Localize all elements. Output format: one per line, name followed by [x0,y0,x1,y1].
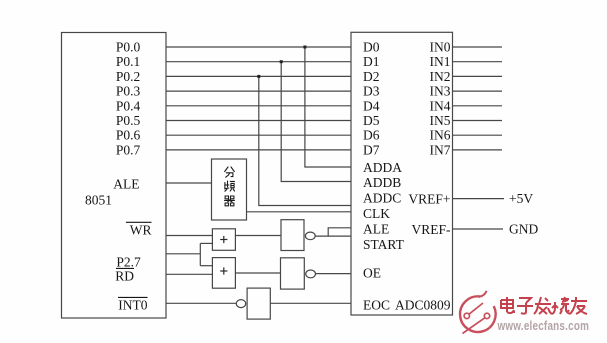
op-amp U1 8051 box [62,33,167,319]
wire IN1 stub [453,61,503,63]
svg-text:ADDA: ADDA [363,160,402,175]
svg-text:P2.7: P2.7 [116,255,141,270]
watermark logo nodes [464,313,469,318]
wire P0.5-D5 [166,120,351,122]
wire ADDA tap vertical [305,47,351,167]
gate G2 plus [220,270,227,272]
wire branch to G1 [200,242,212,244]
svg-text:START: START [363,237,405,252]
svg-text:P0.6: P0.6 [116,128,141,143]
svg-text:IN0: IN0 [430,40,451,55]
wire ALE to divider [166,182,212,184]
svg-text:VREF-: VREF- [411,222,451,237]
op-amp U2 ADC0809 box [351,32,453,315]
svg-text:P0.2: P0.2 [116,69,140,84]
wire +5V stub [453,198,505,200]
svg-text:P0.5: P0.5 [116,113,141,128]
gate G3 bubble [305,232,315,240]
wire G4 out OE [316,273,352,275]
svg-text:D2: D2 [363,69,380,84]
gate G4 inverter [281,258,305,289]
wire RD to G2 [166,273,212,275]
svg-text:IN4: IN4 [430,98,451,113]
wire ALE branch [328,228,351,236]
svg-text:ADDC: ADDC [363,191,401,206]
wire P0.3-D3 [166,90,351,92]
labels 8051 left box [85,40,152,313]
svg-text:P0.3: P0.3 [116,84,141,99]
svg-text:D5: D5 [363,113,380,128]
svg-text:EOC: EOC [363,298,390,313]
node junction dots [257,46,306,78]
wire GND stub [453,228,504,230]
wire IN5 stub [453,120,503,122]
svg-text:IN7: IN7 [430,142,451,157]
overline INT0 [118,296,148,298]
svg-text:P0.7: P0.7 [116,142,141,157]
watermark text 电子发烧友 drawn strokes [501,297,587,314]
svg-text:P0.1: P0.1 [116,54,140,69]
char 友 [570,297,587,314]
wire P0.1-D1 [166,61,351,63]
divider text 分频器 drawn strokes [225,167,235,206]
svg-text:IN3: IN3 [430,84,451,99]
gate G2 OR [212,258,235,289]
svg-text:www.elecfans.com: www.elecfans.com [497,320,589,334]
svg-text:D6: D6 [363,128,380,143]
wire EOC to G5 [270,302,351,304]
svg-text:D0: D0 [363,40,380,55]
char 发 [534,297,552,314]
gate G5 bubble [236,300,245,308]
watermark logo circle [460,291,496,334]
svg-text:ADC0809: ADC0809 [395,298,451,313]
svg-text:D3: D3 [363,84,380,99]
wire IN7 stub [453,149,503,151]
gate G3 inverter [281,220,304,251]
svg-text:+5V: +5V [509,191,533,206]
svg-text:GND: GND [509,222,538,237]
gate G1 plus [220,236,227,275]
svg-text:INT0: INT0 [118,298,147,313]
wire G5 to INT0 [166,302,236,304]
gate G1 OR [212,229,235,251]
labels ADC0809 left column [363,40,405,313]
wire WR to G1 [166,235,212,237]
overline RD [116,267,134,269]
char 烧 [552,297,570,314]
wire P0.2-D2 [166,75,351,77]
svg-text:WR: WR [130,223,152,238]
char 器 [225,196,235,206]
svg-text:P0.4: P0.4 [116,98,141,113]
wire P2.7 [166,253,200,255]
char 分 [225,167,235,177]
svg-text:CLK: CLK [363,206,390,221]
wire branch to G2 [200,265,212,267]
svg-text:VREF+: VREF+ [408,192,450,207]
wire P0.0-D0 [166,46,351,48]
gate G5 inverter [247,288,270,319]
wire IN6 stub [453,134,503,136]
wire G1 to G3 [235,235,281,237]
char 频 [225,181,235,191]
wire ADDC tap vertical [259,76,351,205]
wire P0.4-D4 [166,105,351,107]
svg-text:RD: RD [115,269,134,284]
wire IN4 stub [453,105,503,107]
wire G2 to G4 [235,272,280,274]
svg-text:ADDB: ADDB [363,175,401,190]
svg-text:8051: 8051 [85,193,112,208]
svg-text:IN2: IN2 [430,69,451,84]
wire P2.7 branch vertical [199,243,201,265]
wire P0.6-D6 [166,134,351,136]
char 子 [517,298,533,314]
svg-text:IN5: IN5 [430,113,451,128]
svg-text:D4: D4 [363,98,380,113]
svg-text:D1: D1 [363,54,380,69]
wire P0.7-D7 [166,149,351,151]
wire IN2 stub [453,75,503,77]
wire divider CLK [247,211,352,213]
svg-text:ALE: ALE [363,222,389,237]
overline WR [126,221,152,223]
svg-text:OE: OE [363,266,381,281]
divider box 分频器 [212,159,247,220]
svg-text:IN1: IN1 [430,54,451,69]
wire G3 out START [315,235,351,237]
wire ADDB tap vertical [281,62,351,182]
svg-text:IN6: IN6 [430,128,451,143]
svg-text:ALE: ALE [113,177,139,192]
svg-text:D7: D7 [363,142,380,157]
labels ADC0809 right column [395,40,451,313]
wire IN3 stub [453,90,503,92]
svg-text:P0.0: P0.0 [116,40,141,55]
wire IN0 stub [453,46,503,48]
gate G4 bubble [306,270,316,278]
char 电 [501,297,515,313]
